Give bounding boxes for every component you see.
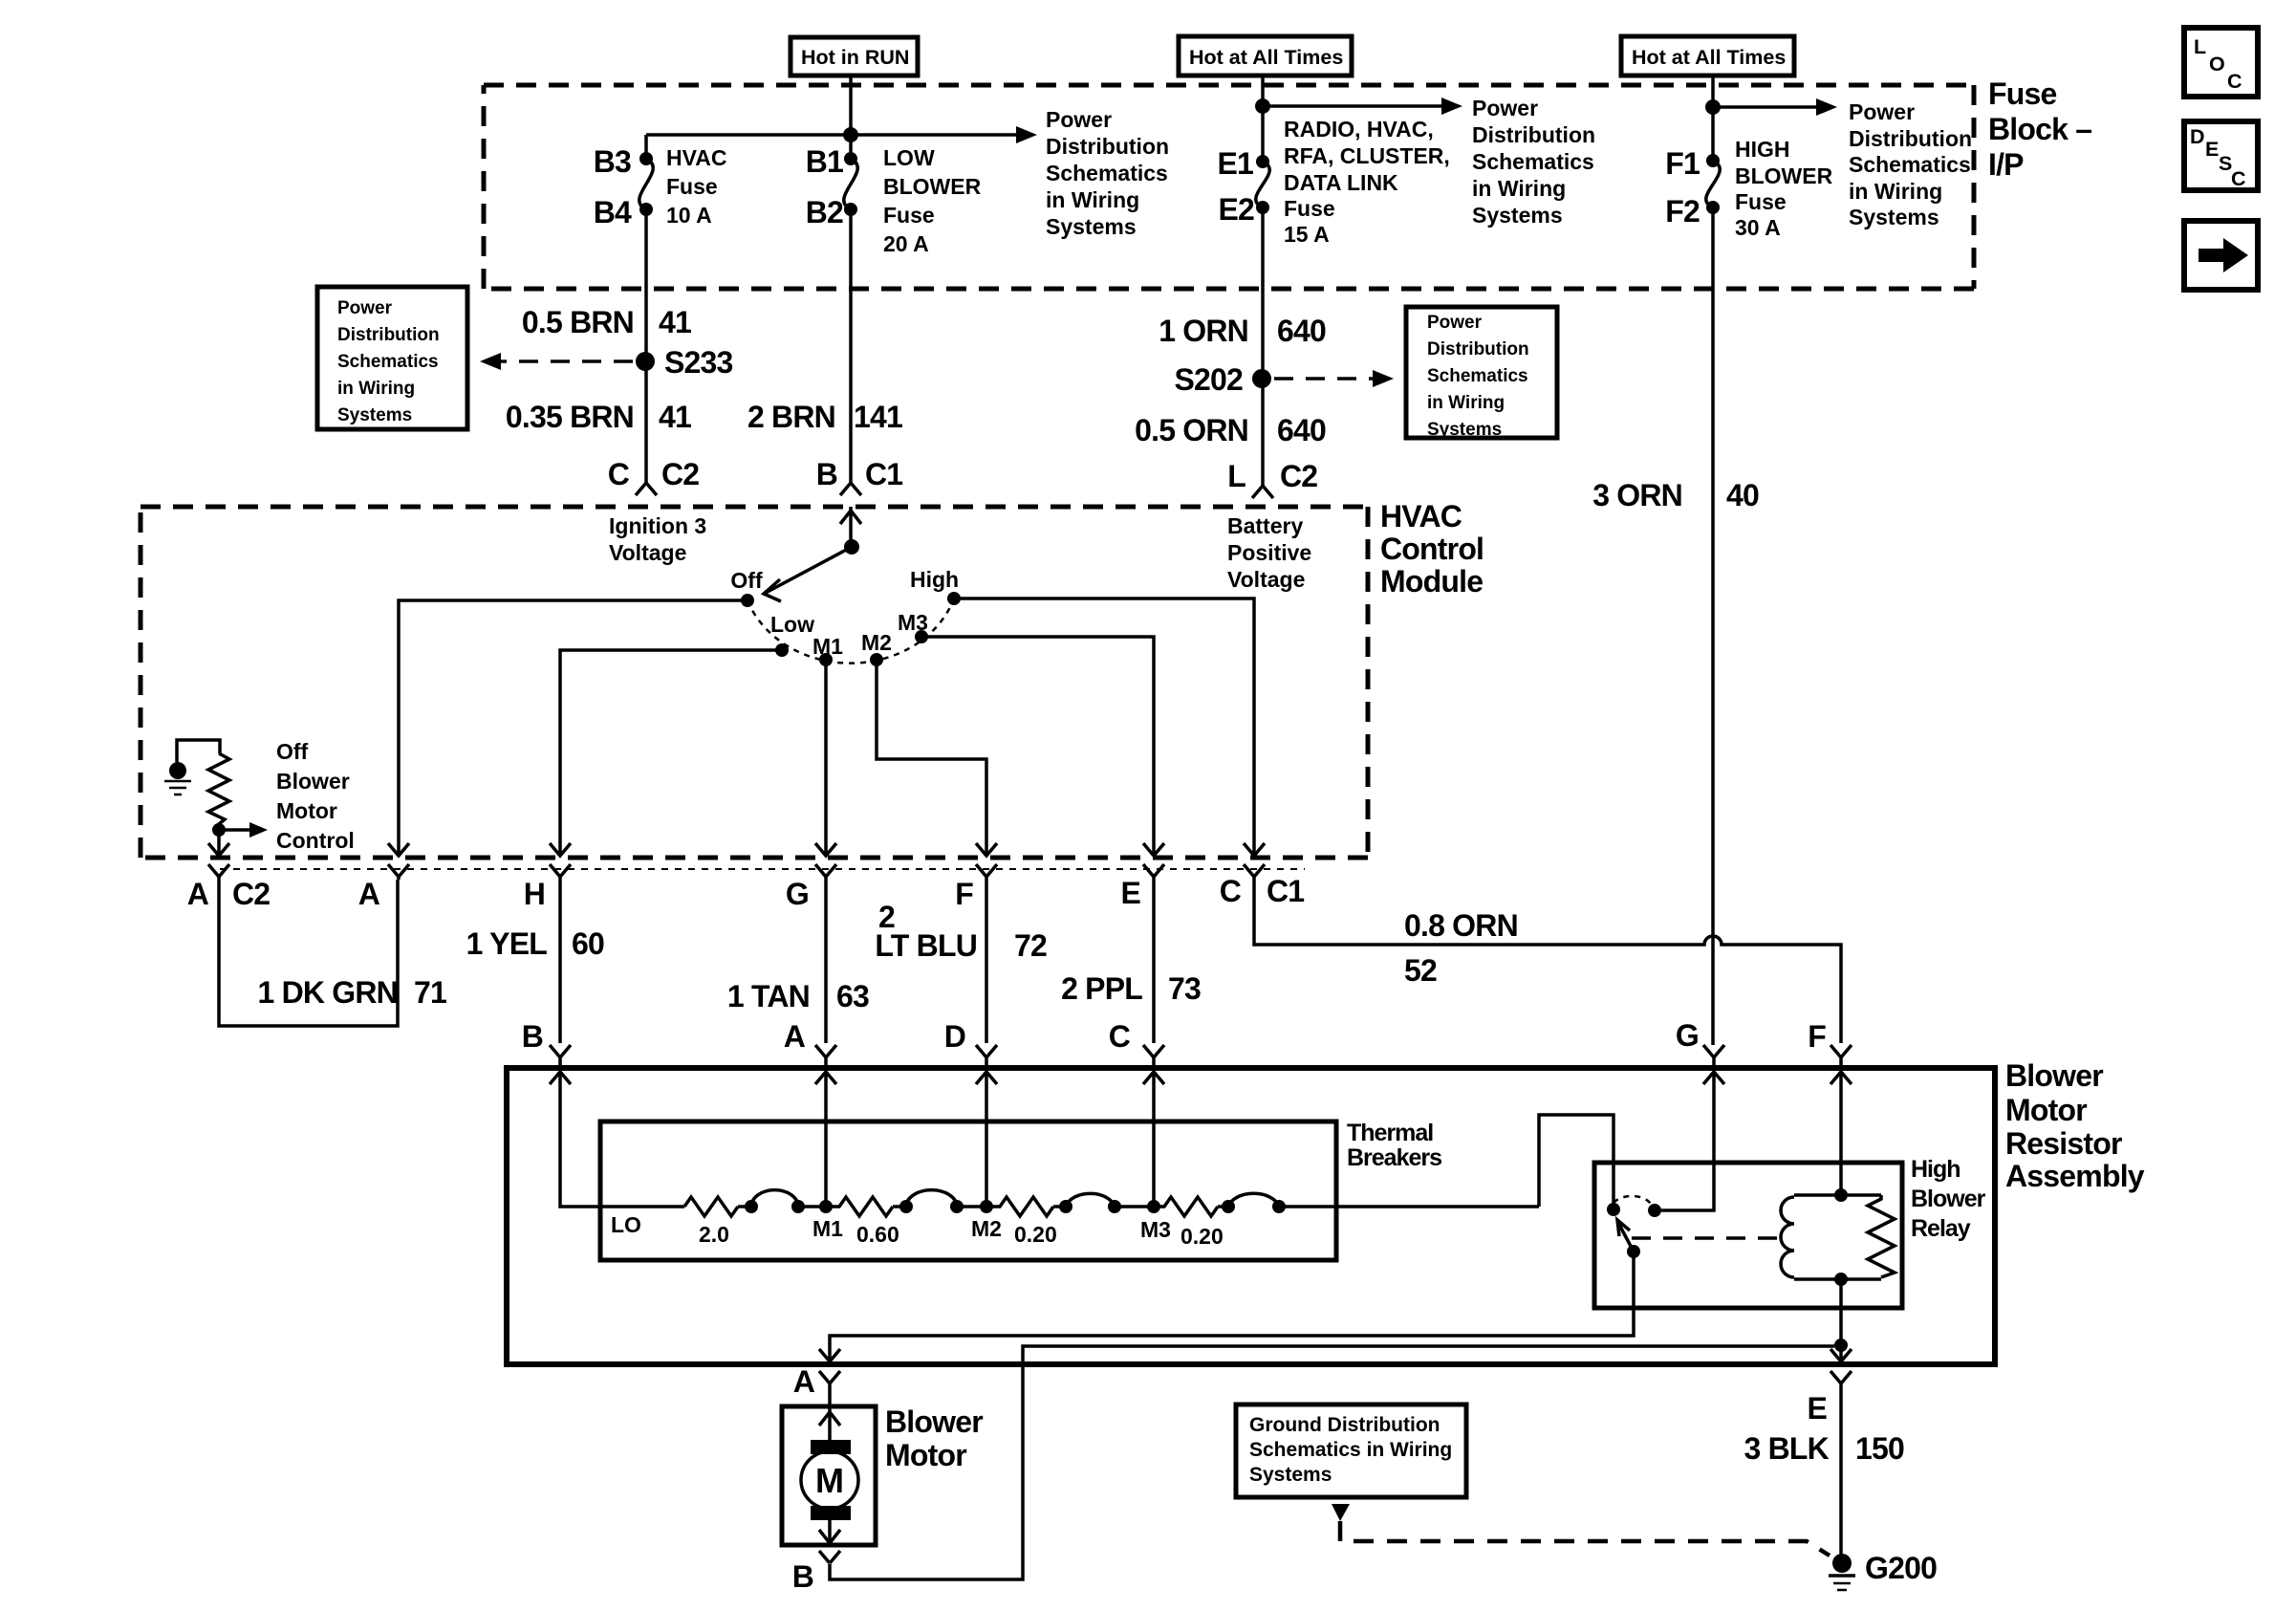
node M1 [819, 1200, 833, 1213]
svg-text:in Wiring: in Wiring [337, 379, 415, 399]
svg-text:Ignition 3: Ignition 3 [609, 513, 706, 538]
svg-text:Systems: Systems [1427, 420, 1502, 440]
svg-text:Schematics in Wiring: Schematics in Wiring [1249, 1439, 1452, 1461]
svg-text:72: 72 [1014, 928, 1047, 963]
motor internal: bottom lead [828, 1520, 832, 1545]
svg-text:B2: B2 [806, 195, 843, 229]
svg-text:20 A: 20 A [883, 231, 929, 256]
svg-text:B1: B1 [806, 144, 843, 179]
svg-text:Thermal: Thermal [1347, 1120, 1433, 1146]
switch terminal M3 [915, 630, 928, 643]
wire chain to relay common [1539, 1115, 1614, 1209]
svg-text:LT BLU: LT BLU [875, 928, 977, 963]
svg-text:0.5 ORN: 0.5 ORN [1135, 413, 1248, 447]
svg-text:Motor: Motor [885, 1438, 966, 1472]
connector fork A above blower motor [819, 1371, 840, 1388]
fuse RADIO 15A (E1/E2) [1256, 155, 1269, 168]
resistor 2.0 [684, 1197, 738, 1216]
svg-text:Systems: Systems [1849, 205, 1939, 229]
svg-text:C: C [2227, 70, 2242, 93]
wire: B/C1 into switch pivot with entry arrow [849, 507, 853, 547]
svg-text:B: B [816, 457, 837, 491]
wire: branch 1 horizontal to arrow and to HVAC fuse [646, 135, 1024, 159]
dashed arrow from S202 to power distribution box [1274, 377, 1376, 381]
svg-text:0.35 BRN: 0.35 BRN [506, 400, 634, 434]
svg-text:S233: S233 [664, 345, 733, 380]
wire: M1 to module pin G [824, 660, 828, 856]
svg-text:C2: C2 [661, 457, 699, 491]
svg-text:Schematics: Schematics [337, 352, 439, 372]
svg-text:RFA, CLUSTER,: RFA, CLUSTER, [1284, 143, 1450, 168]
svg-text:Distribution: Distribution [1472, 122, 1595, 147]
svg-text:BLOWER: BLOWER [883, 174, 982, 199]
wire: motor B loop to coil junction [830, 1346, 1834, 1579]
relay switch common [1607, 1203, 1620, 1216]
svg-text:Schematics: Schematics [1472, 149, 1594, 174]
wire: F branch feed down [1711, 76, 1715, 161]
arrowhead to Power Distribution 1 [1016, 126, 1037, 143]
node: off blower motor control tap [212, 823, 226, 837]
svg-text:Blower: Blower [2005, 1058, 2103, 1093]
switch arm [766, 547, 852, 593]
wire: 3 ORN from F2 down to resistor assembly G [1711, 207, 1715, 1045]
svg-text:Off: Off [276, 739, 309, 764]
wire G down into relay NC contact [1661, 1072, 1714, 1210]
svg-text:Power: Power [1849, 99, 1915, 124]
switch terminal Low [775, 643, 789, 657]
svg-text:640: 640 [1277, 314, 1326, 348]
switch terminal M1 [819, 653, 833, 666]
Hot in RUN header box [791, 37, 918, 76]
svg-text:Hot at All Times: Hot at All Times [1189, 46, 1343, 69]
thermal breaker 3 [1059, 1200, 1072, 1213]
svg-text:Distribution: Distribution [337, 325, 440, 345]
svg-text:Control: Control [1380, 532, 1484, 566]
svg-text:1 ORN: 1 ORN [1159, 314, 1248, 348]
switch terminal M2 [870, 653, 883, 666]
arrow legend box [2184, 221, 2258, 290]
svg-text:2 BRN: 2 BRN [747, 400, 835, 434]
svg-text:C: C [608, 457, 630, 491]
svg-text:2.0: 2.0 [699, 1222, 729, 1247]
motor brushes [811, 1440, 851, 1454]
svg-text:L: L [1227, 459, 1245, 493]
svg-text:BLOWER: BLOWER [1735, 163, 1833, 188]
resistor 0.20 (first) [986, 1197, 1053, 1216]
splice S202 [1252, 369, 1271, 388]
arrowhead to Power Distribution E [1441, 98, 1462, 115]
svg-text:Blower: Blower [885, 1404, 983, 1439]
svg-text:Distribution: Distribution [1046, 134, 1169, 159]
wire: B4 down to C/C2 connector [644, 209, 648, 483]
wire A down to chain M1 [824, 1072, 828, 1207]
thermal breaker 2 [899, 1200, 913, 1213]
svg-text:M3: M3 [898, 610, 928, 635]
wire: M3 to module pin E [921, 637, 1154, 856]
svg-text:Fuse: Fuse [1735, 189, 1787, 214]
svg-text:0.8 ORN: 0.8 ORN [1404, 908, 1518, 943]
svg-text:0.20: 0.20 [1014, 1222, 1057, 1247]
svg-text:Distribution: Distribution [1849, 126, 1972, 151]
svg-text:2 PPL: 2 PPL [1061, 971, 1142, 1006]
svg-text:Voltage: Voltage [609, 540, 686, 565]
wire B down to resistor chain [560, 1072, 684, 1207]
relay contact dashed arc [1614, 1196, 1651, 1204]
svg-text:Power: Power [1427, 313, 1483, 333]
svg-text:Fuse: Fuse [1284, 196, 1335, 221]
thin dashed connector line at module bottom [220, 868, 1305, 870]
wire: M2 to module pin F [877, 660, 986, 856]
svg-text:Relay: Relay [1911, 1215, 1971, 1242]
svg-text:Battery: Battery [1227, 513, 1303, 538]
svg-text:30 A: 30 A [1735, 215, 1781, 240]
svg-text:Hot in RUN: Hot in RUN [801, 46, 909, 69]
svg-text:E1: E1 [1217, 146, 1253, 181]
svg-text:1 YEL: 1 YEL [466, 926, 548, 961]
svg-text:E: E [2205, 138, 2219, 161]
svg-text:G: G [1676, 1018, 1699, 1053]
svg-text:3 ORN: 3 ORN [1592, 478, 1682, 512]
svg-text:Fuse: Fuse [1988, 76, 2057, 111]
entry arrows inside resistor assembly [550, 1072, 571, 1084]
svg-text:Module: Module [1380, 564, 1483, 599]
svg-text:D: D [2190, 125, 2205, 148]
module bottom exit arrows [208, 843, 229, 856]
svg-text:F1: F1 [1665, 146, 1700, 181]
svg-text:O: O [2209, 53, 2225, 76]
HVAC control module dashed box [141, 505, 1368, 510]
svg-text:Off: Off [730, 568, 763, 593]
svg-text:C: C [2231, 167, 2246, 190]
wire: Low to module pin H [560, 650, 782, 856]
svg-text:640: 640 [1277, 413, 1326, 447]
svg-text:F: F [1808, 1019, 1826, 1054]
svg-text:40: 40 [1726, 478, 1759, 512]
splice S233 [636, 352, 655, 371]
svg-text:Fuse: Fuse [883, 203, 935, 228]
svg-text:41: 41 [659, 305, 691, 339]
svg-text:Motor: Motor [2005, 1093, 2087, 1127]
dashed route from ground box to G200 [1340, 1521, 1830, 1556]
svg-text:C1: C1 [865, 457, 902, 491]
wire 1 YEL 60 (H to B) [558, 880, 562, 1043]
svg-text:73: 73 [1168, 971, 1201, 1006]
svg-text:1 DK GRN: 1 DK GRN [257, 975, 398, 1010]
switch terminal Off [741, 594, 754, 607]
svg-text:Distribution: Distribution [1427, 339, 1529, 359]
svg-text:C2: C2 [1280, 459, 1317, 493]
svg-text:A: A [784, 1019, 806, 1054]
svg-text:M1: M1 [812, 634, 843, 659]
relay actuation dashed line [1632, 1236, 1788, 1240]
svg-text:141: 141 [854, 400, 902, 434]
wire D down to chain M2 [985, 1072, 988, 1207]
svg-text:HVAC: HVAC [1380, 499, 1462, 533]
svg-text:Schematics: Schematics [1046, 161, 1168, 185]
svg-text:Schematics: Schematics [1427, 366, 1528, 386]
connector fork E below resistor assembly [1830, 1371, 1852, 1388]
blower motor box [828, 1388, 832, 1406]
svg-text:10 A: 10 A [666, 203, 712, 228]
svg-text:63: 63 [836, 979, 869, 1013]
wire: Hot in RUN feed down [849, 76, 853, 159]
svg-text:D: D [944, 1019, 965, 1054]
svg-text:Systems: Systems [337, 405, 412, 425]
svg-text:F: F [955, 877, 973, 911]
wire: High to module pin C [954, 599, 1254, 856]
svg-text:A: A [187, 877, 209, 911]
node: branch E junction [1255, 98, 1270, 114]
svg-text:3 BLK: 3 BLK [1744, 1431, 1830, 1466]
high blower relay box [1594, 1163, 1902, 1308]
svg-text:RADIO, HVAC,: RADIO, HVAC, [1284, 117, 1434, 142]
svg-text:60: 60 [572, 926, 604, 961]
svg-text:150: 150 [1855, 1431, 1904, 1466]
svg-text:M2: M2 [861, 630, 892, 655]
node: coil/E junction [1834, 1339, 1848, 1352]
svg-text:Blower: Blower [1911, 1186, 1986, 1212]
wire: branch F arrow line [1713, 105, 1824, 109]
box: Ground Distribution Schematics in Wiring Systems [1236, 1404, 1466, 1497]
svg-text:Fuse: Fuse [666, 174, 718, 199]
blower motor resistor assembly box [507, 1068, 1995, 1364]
exit arrows at resistor assembly bottom [819, 1349, 840, 1361]
wire 2 LT BLU 72 (F to D) [985, 880, 988, 1043]
connector fork B below blower motor [819, 1551, 840, 1563]
svg-text:M2: M2 [971, 1216, 1002, 1241]
svg-text:M3: M3 [1140, 1217, 1171, 1242]
svg-text:1 TAN: 1 TAN [727, 979, 810, 1013]
svg-text:B3: B3 [594, 144, 631, 179]
svg-text:Positive: Positive [1227, 540, 1311, 565]
node M2 [980, 1200, 993, 1213]
svg-text:F2: F2 [1665, 194, 1700, 229]
svg-text:Systems: Systems [1472, 203, 1563, 228]
relay switch arm [1627, 1245, 1640, 1258]
wire F down to relay coil top [1839, 1072, 1843, 1195]
node M3 [1147, 1200, 1160, 1213]
wire: E2 down to L/C2 connector [1261, 207, 1265, 486]
wire: relay throw down and left to blower motor A [830, 1252, 1634, 1361]
wire: E branch feed down [1261, 76, 1265, 162]
wire: relay coil bottom down to E [1839, 1279, 1843, 1361]
svg-text:High: High [910, 567, 959, 592]
relay coil [1794, 1195, 1881, 1279]
wire 2 PPL 73 (E to C) [1152, 880, 1156, 1043]
wire C down to chain M3 [1152, 1072, 1156, 1207]
switch terminal High [947, 592, 961, 605]
svg-text:Block –: Block – [1988, 112, 2091, 146]
svg-text:Power: Power [337, 298, 393, 318]
svg-text:E: E [1807, 1391, 1827, 1426]
LOC legend box [2184, 28, 2258, 97]
svg-text:0.20: 0.20 [1180, 1224, 1224, 1249]
svg-text:LOW: LOW [883, 145, 935, 170]
resistor 0.20 (second) [1154, 1197, 1218, 1216]
svg-text:Control: Control [276, 828, 355, 853]
dashed arrow from S233 to power distribution box [497, 359, 633, 363]
connector forks below module [208, 864, 229, 880]
relay NC contact [1648, 1204, 1661, 1217]
svg-text:E: E [1120, 876, 1140, 910]
svg-text:M: M [815, 1461, 844, 1500]
svg-text:High: High [1911, 1156, 1960, 1183]
svg-text:S202: S202 [1174, 362, 1243, 397]
svg-text:15 A: 15 A [1284, 222, 1330, 247]
thermal breakers box [600, 1121, 1336, 1260]
svg-text:G200: G200 [1865, 1551, 1937, 1585]
svg-text:B4: B4 [594, 195, 632, 229]
svg-text:Resistor: Resistor [2005, 1126, 2122, 1161]
wire 1 DK GRN loop [219, 880, 398, 1026]
svg-text:52: 52 [1404, 953, 1437, 988]
svg-text:C: C [1109, 1019, 1131, 1054]
fuse block I/P dashed box [484, 83, 1974, 88]
svg-text:Breakers: Breakers [1347, 1144, 1441, 1171]
arrowhead to Power Distribution F [1816, 98, 1837, 116]
switch pivot node [844, 539, 859, 555]
svg-text:Systems: Systems [1046, 214, 1137, 239]
svg-text:B: B [792, 1559, 813, 1594]
svg-text:L: L [2194, 35, 2206, 58]
wire: B2 down to B/C1 connector [849, 209, 853, 483]
wire: branch E arrow line [1263, 104, 1449, 108]
svg-text:Power: Power [1472, 96, 1538, 120]
node: branch F junction [1705, 99, 1721, 115]
connector forks at resistor assembly top [550, 1045, 571, 1065]
wire 1 TAN 63 (G to A) [824, 880, 828, 1043]
svg-text:0.5 BRN: 0.5 BRN [522, 305, 634, 339]
svg-text:in Wiring: in Wiring [1046, 187, 1139, 212]
svg-text:A: A [793, 1364, 815, 1399]
ground (module internal) [169, 762, 186, 779]
fuse LOW BLOWER 20A (B1/B2) [844, 152, 857, 165]
svg-text:Hot at All Times: Hot at All Times [1632, 46, 1786, 69]
Hot at All Times header box 1 [1179, 36, 1352, 76]
svg-text:M1: M1 [812, 1216, 843, 1241]
Hot at All Times header box 2 [1621, 36, 1794, 76]
svg-text:B: B [522, 1019, 543, 1054]
thermal breaker 1 [745, 1200, 758, 1213]
svg-text:Blower: Blower [276, 769, 350, 794]
svg-text:LO: LO [611, 1212, 641, 1237]
svg-text:I/P: I/P [1988, 147, 2024, 182]
svg-text:Assembly: Assembly [2005, 1159, 2145, 1193]
svg-text:Schematics: Schematics [1849, 152, 1971, 177]
wire 0.8 ORN 52 (C1 to F of resistor assembly) [1254, 880, 1841, 1043]
svg-text:G: G [786, 877, 809, 911]
motor internal: top lead [828, 1406, 832, 1440]
svg-text:Systems: Systems [1249, 1464, 1332, 1486]
DESC legend box [2184, 121, 2258, 190]
motor armature M [801, 1451, 858, 1509]
triangle pointer below ground box [1332, 1504, 1350, 1521]
svg-text:in Wiring: in Wiring [1849, 179, 1942, 204]
box: Power Distribution Schematics (left) [317, 287, 467, 429]
svg-text:HIGH: HIGH [1735, 137, 1790, 162]
svg-text:Power: Power [1046, 107, 1112, 132]
ground G200 [1832, 1554, 1852, 1573]
svg-text:Ground Distribution: Ground Distribution [1249, 1414, 1440, 1436]
svg-text:Motor: Motor [276, 798, 337, 823]
svg-text:Voltage: Voltage [1227, 567, 1305, 592]
off blower motor control resistor [177, 740, 220, 762]
svg-text:C1: C1 [1267, 874, 1304, 908]
box: Power Distribution Schematics (right of S202) [1406, 307, 1557, 438]
svg-text:C: C [1220, 874, 1242, 908]
svg-text:Low: Low [770, 612, 814, 637]
node: branch 1 junction [843, 127, 858, 142]
svg-text:41: 41 [659, 400, 691, 434]
svg-text:A: A [358, 877, 380, 911]
svg-text:DATA LINK: DATA LINK [1284, 170, 1398, 195]
svg-text:in Wiring: in Wiring [1427, 393, 1505, 413]
dashed selector arc [747, 599, 954, 664]
fuse HIGH BLOWER 30A (F1/F2) [1706, 154, 1720, 167]
svg-text:C2: C2 [232, 877, 270, 911]
svg-text:in Wiring: in Wiring [1472, 176, 1566, 201]
svg-text:H: H [524, 877, 545, 911]
wire: Off to module pin A [399, 600, 747, 856]
wire: E down to G200 [1839, 1388, 1843, 1555]
fuse HVAC 10A (B3/B4) [639, 152, 653, 165]
thermal breaker 4 [1222, 1200, 1235, 1213]
svg-text:71: 71 [414, 975, 446, 1010]
svg-text:0.60: 0.60 [856, 1222, 899, 1247]
resistor 0.60 [826, 1197, 893, 1216]
svg-text:HVAC: HVAC [666, 145, 726, 170]
svg-text:E2: E2 [1218, 192, 1254, 227]
